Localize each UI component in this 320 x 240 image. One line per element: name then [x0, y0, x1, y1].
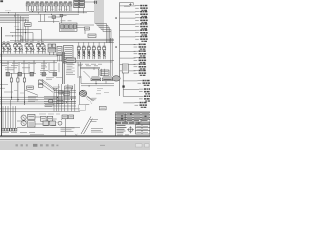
connector CN15: [135, 102, 148, 108]
net arrow labels mid-left: [28, 96, 38, 101]
sensor boxes S1 S2: [62, 115, 74, 119]
node label box A1: [25, 23, 32, 27]
transistor cell T7: [54, 2, 58, 11]
small box B2: [85, 27, 90, 30]
title small text cells: [116, 113, 149, 122]
toolbar page indicator: [100, 144, 105, 146]
corner registration mark: [0, 0, 3, 2]
connector CN1: [135, 5, 148, 11]
relay K1 box: [38, 80, 43, 84]
solenoid SOL1 dark oval: [112, 76, 120, 81]
wires linking bottom cluster: [17, 117, 65, 136]
title address lines: [117, 126, 127, 133]
junction square lower right: [122, 85, 124, 87]
net text cluster right of TB1: [67, 64, 75, 69]
breaker CB4: [42, 72, 46, 76]
valve box V1: [122, 64, 128, 73]
hydraulic block boxes H1: [41, 116, 57, 125]
net text above group box: [61, 20, 72, 22]
label box LB1: [27, 86, 34, 89]
net text under driver row left: [2, 64, 36, 66]
fuse F2: [17, 73, 19, 102]
junction dots motor area: [89, 83, 97, 86]
wire diagonal from motor: [87, 96, 95, 101]
driver cell Q2: [14, 42, 23, 54]
transistor cell T4: [40, 2, 44, 11]
bottom page thin rule: [0, 136, 150, 138]
title header band right part: [139, 122, 150, 125]
IC block U1: [57, 47, 62, 56]
relay K1b box: [38, 84, 43, 87]
breaker CB5: [53, 72, 57, 76]
transistor cell T1: [26, 2, 30, 11]
small box B3: [88, 34, 96, 38]
wire drops from lower-left bus: [8, 61, 59, 73]
switch box SW1: [100, 106, 107, 110]
transistor cell T2: [31, 2, 34, 11]
output cell Q7: [87, 46, 90, 59]
viewer toolbar background: [0, 139, 150, 150]
driver cell Q3: [25, 42, 34, 54]
long vertical wires right-center: [110, 38, 112, 76]
transistor cell T9: [64, 2, 68, 11]
leads from bus to output cells: [79, 42, 104, 45]
bottom-left vertical wire grid: [3, 100, 16, 128]
diagonal wire bundle center: [40, 80, 57, 93]
driver cell Q4: [37, 42, 46, 54]
title block top rule: [115, 111, 150, 113]
connector CN3: [135, 17, 148, 23]
transistor cell T10: [68, 2, 72, 11]
title header text: [117, 122, 149, 124]
connector CN6: [135, 36, 148, 42]
motor M1 hatched: [80, 90, 87, 96]
driver cell Q1: [2, 42, 11, 54]
connector CN2: [135, 11, 148, 17]
driver cells row left: [2, 42, 46, 54]
bus lines lower-left: [0, 61, 62, 63]
toolbar top edge: [0, 138, 150, 140]
connector CN4: [135, 23, 148, 29]
top cells row: [26, 2, 72, 11]
relay coil boxes K2 K3: [91, 77, 113, 81]
page background: [0, 0, 150, 140]
net text under terminal row: [2, 131, 35, 133]
diode pair D1: [94, 1, 98, 4]
breaker CB3: [30, 72, 34, 76]
diagonal wire to motor: [84, 71, 91, 78]
contact box CT2: [49, 100, 63, 104]
net label text row LL: [5, 68, 30, 70]
vertical wire lower right: [122, 73, 124, 96]
connector CN8: [134, 50, 147, 56]
wire bus top-center group: [29, 11, 94, 14]
lever diagonal slash: [81, 117, 92, 135]
title block frame: [115, 113, 150, 136]
specks left mid: [14, 91, 24, 93]
long rail line bottom: [0, 114, 80, 128]
terminal row bottom-left: [2, 128, 17, 131]
control box U3: [100, 70, 109, 75]
connector CN10: [134, 63, 147, 69]
vertical net text cluster center: [41, 64, 47, 69]
vertical frame line inner border: [119, 2, 121, 96]
logic cluster boxes LC1: [48, 44, 56, 55]
note text block bottom-center: [61, 128, 75, 132]
transistor cell T8: [59, 2, 63, 11]
bus under left driver row: [0, 54, 62, 56]
note text block right: [91, 128, 103, 132]
connector CN9: [134, 57, 147, 63]
diagonal wire mid-left: [25, 90, 38, 95]
title right cells: [136, 125, 151, 134]
toolbar icon group: [16, 144, 59, 147]
bus under right driver row: [76, 60, 114, 62]
net text rows center bottom: [40, 71, 75, 75]
junction dots on lower-left bus: [14, 60, 55, 63]
connector CN5: [135, 29, 148, 35]
faint annotation specks top: [5, 9, 68, 26]
title header band gaps: [121, 122, 135, 124]
output cell Q9: [98, 46, 101, 59]
box B4: [65, 86, 73, 89]
footer text under title block: [117, 134, 129, 136]
junction dot J2: [115, 46, 116, 47]
guard box outline: [78, 105, 85, 111]
transistor cell T6: [50, 2, 54, 11]
breaker CB2: [18, 72, 22, 76]
wire bus mid horizontal group: [0, 97, 80, 111]
module group box GB1: [59, 23, 77, 31]
relay bank cells inside GB1: [61, 25, 77, 31]
connector CN7: [134, 44, 147, 50]
left page border: [0, 27, 2, 136]
arrow label near motor: [92, 98, 97, 100]
title block header band: [115, 122, 139, 125]
toolbar zoom buttons: [136, 144, 150, 147]
wire bus stub LL: [10, 72, 36, 74]
gauge G1: [21, 115, 26, 120]
fuse F1: [10, 73, 12, 100]
thick vertical bus pair: [62, 52, 64, 84]
gauge G2: [21, 121, 26, 126]
wire U10 to diodes: [78, 2, 94, 13]
pump unit boxes P1: [28, 114, 35, 127]
contact pair CT1: [59, 91, 70, 95]
wire crossing grid center: [44, 84, 76, 111]
wire bus top-left horizontal group: [0, 13, 29, 23]
junction cross J0: [129, 3, 132, 6]
callout text mid-right: [90, 119, 98, 121]
junction dots mid bus: [11, 97, 72, 103]
IC block U2: [64, 46, 74, 64]
connector CN11: [134, 70, 147, 76]
connector column right edge: [134, 5, 152, 108]
relay blob K10: [52, 16, 56, 19]
relay blob K11: [60, 14, 63, 17]
riser bundle center-top: [95, 0, 111, 43]
title row dark marks: [121, 113, 146, 119]
wire risers from top-left bus: [16, 13, 29, 43]
driver cells row right (narrow): [77, 46, 106, 59]
output cell Q5: [77, 46, 80, 59]
wires exiting GB1 right: [77, 25, 94, 34]
junction dots on top bus: [8, 11, 52, 16]
connector CN13: [139, 88, 152, 94]
net text center top: [45, 78, 62, 107]
net text under right row: [78, 64, 102, 66]
long bus lines above driver row: [2, 39, 114, 42]
dashed linkage: [86, 98, 92, 104]
net label text top-right: [124, 5, 130, 7]
dimension tick marks above border: [30, 134, 77, 136]
short wires left of fuses: [0, 85, 13, 92]
output cell Q8: [92, 46, 95, 59]
connector CN12: [138, 80, 151, 86]
output cell Q9b: [103, 46, 106, 59]
wire bus left mid group: [5, 30, 42, 43]
fuse F3: [23, 73, 25, 105]
connector CN14: [139, 96, 152, 102]
IC block U10 (2x2 box cluster): [74, 0, 85, 7]
junction dot J1: [115, 17, 116, 18]
wire into group box: [38, 14, 59, 21]
breaker CB1: [6, 72, 10, 76]
wire top-right frame: [120, 2, 134, 5]
wire drops to relay row: [78, 62, 104, 78]
filter circle FL1: [58, 121, 62, 125]
junction dots left mid: [12, 29, 26, 36]
wire bus center-right: [79, 76, 114, 105]
wires feeding U3: [80, 68, 100, 71]
bottom page border double rule: [0, 135, 150, 137]
output cell Q6: [82, 46, 85, 59]
wire stubs to connector column: [120, 6, 139, 103]
pin wires under U1: [58, 56, 61, 62]
transistor cell T5: [45, 2, 49, 11]
projection symbol: [127, 126, 134, 133]
gauge needles: [22, 117, 24, 125]
toolbar highlight: [0, 140, 150, 142]
wire from K10 K11: [48, 16, 67, 24]
transistor cell T3: [36, 2, 40, 11]
net specks right of motor: [96, 89, 109, 94]
top text row bottom-center: [39, 113, 60, 115]
terminal block TB1: [66, 58, 76, 63]
